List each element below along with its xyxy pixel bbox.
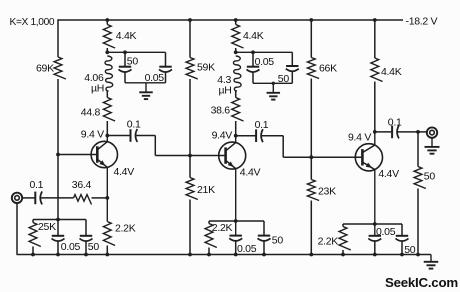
- wire: output cap to output terminal: [398, 131, 428, 133]
- svg-text:44.8: 44.8: [81, 106, 101, 118]
- wire: 0.05 to ground rail stage 3: [374, 241, 376, 254]
- junction: stage-3 2.2K on ground rail: [341, 253, 345, 257]
- wire: 38.6 to Q2 collector node: [235, 121, 237, 136]
- wire: bar end to 50 cap stage 2: [291, 52, 293, 65]
- wire: bar to 50 cap stage-2 emitter: [263, 221, 265, 235]
- svg-text:50: 50: [127, 55, 139, 67]
- svg-text:2.2K: 2.2K: [115, 223, 136, 235]
- svg-text:-18.2 V: -18.2 V: [406, 16, 438, 28]
- wire: bar to 2.2K stage 2: [208, 221, 210, 224]
- wire: Q2 emitter lead down: [235, 169, 237, 236]
- wire: bar end to 0.05 cap: [165, 52, 167, 66]
- wire: top supply rail: [58, 19, 403, 21]
- wire: 25K to ground rail: [32, 247, 34, 255]
- wire: stage-1 decoupling bottom bar: [125, 82, 166, 84]
- svg-text:4.4V: 4.4V: [240, 166, 261, 178]
- junction: output load on ground rail: [416, 253, 420, 257]
- resistor 50 (output load): [414, 167, 426, 189]
- resistor 4.4K (stage-2 collector supply): [232, 25, 244, 49]
- wire: rail to 4.4K stage 3: [374, 20, 376, 58]
- capacitor 0.1 (stage-1/2 coupling): [130, 129, 132, 142]
- transistor Q3 (stage 3, common-emitter) (NPN, circle envelope): [355, 144, 382, 171]
- resistor 4.4K (stage-1 collector supply): [103, 25, 115, 49]
- wire: 50 cap to ground rail: [85, 241, 87, 254]
- junction: 50 cap on ground rail: [84, 253, 88, 257]
- svg-text:69K: 69K: [36, 63, 54, 75]
- wire: 2.2K to ground rail stage 3: [342, 250, 344, 255]
- wire: rail to 59K: [189, 20, 191, 58]
- resistor 2.2K (stage-1 emitter): [103, 222, 115, 246]
- svg-text:23K: 23K: [318, 185, 336, 197]
- resistor 44.8 (stage-1 collector): [103, 98, 115, 122]
- node: Q3 base bias junction: [309, 155, 313, 159]
- resistor 23K (bias divider lower, stage 3): [307, 180, 319, 201]
- svg-text:9.4 V: 9.4 V: [348, 131, 371, 143]
- capacitor 0.05 (stage-3 emitter bypass): [369, 235, 381, 237]
- ground (stage-2 decoupling): [267, 83, 281, 99]
- svg-text:50: 50: [404, 244, 416, 256]
- inductor 4.06 µH (stage-1 peaking coil): [105, 56, 113, 91]
- junction: 23K on ground rail: [309, 253, 313, 257]
- wire: rail to 4.4K stage 2: [235, 20, 237, 25]
- resistor 21K (bias divider lower, stage 2): [186, 178, 198, 200]
- wire: 50 cap to ground rail stage-2 emitter: [263, 241, 265, 255]
- wire: stage-2 emitter bar: [209, 220, 264, 222]
- wire: Q3 collector lead: [374, 132, 376, 145]
- wire: 69K to base node / bypass bar: [57, 79, 59, 220]
- node: Q2 base bias junction: [188, 154, 192, 158]
- resistor 38.6 (stage-2 collector): [232, 98, 244, 122]
- junction: stage-2 collector chain on supply rail: [234, 18, 238, 22]
- junction: stage-1 collector chain on supply rail: [105, 18, 109, 22]
- svg-text:4.4K: 4.4K: [381, 66, 402, 78]
- wire: Q3 collector to output coupling cap: [375, 131, 392, 133]
- node: Q1 emitter input junction: [105, 196, 109, 200]
- wire: 0.05 cap to bottom bar: [165, 72, 167, 83]
- node: stage-1 base bypass junction: [56, 218, 60, 222]
- junction: 59K on supply rail: [188, 18, 192, 22]
- capacitor 0.1 (input coupling): [34, 192, 36, 205]
- resistor 2.2K (stage-2 emitter): [205, 224, 217, 248]
- junction: stage-2 2.2K on ground rail: [207, 253, 211, 257]
- transistor Q1 (stage 1, common-base) (NPN, circle envelope): [91, 141, 117, 167]
- capacitor 0.1 (output coupling): [391, 126, 393, 139]
- svg-text:0.1: 0.1: [255, 119, 269, 131]
- node: Q2 collector (9.4 V): [234, 134, 238, 138]
- wire: Q3 emitter lead down: [374, 169, 376, 235]
- wire: 36.4 to Q1 emitter line: [92, 197, 108, 199]
- wire: Q1 collector to coupling cap: [107, 135, 130, 137]
- junction: 0.05 cap on ground rail: [56, 253, 60, 257]
- wire: 4.4K to decoupling node stage 2: [235, 48, 237, 52]
- junction: stage-2 50 cap on ground rail: [262, 253, 266, 257]
- junction: stage-3 0.05 on ground rail: [373, 253, 377, 257]
- resistor 66K (bias divider upper, stage 3): [307, 58, 319, 79]
- node: Q1 collector (9.4 V): [105, 134, 109, 138]
- svg-text:0.05: 0.05: [237, 243, 257, 255]
- svg-text:36.4: 36.4: [72, 179, 92, 191]
- svg-text:9.4 V: 9.4 V: [81, 128, 104, 140]
- wire: rail to 4.4K: [106, 20, 108, 25]
- capacitor 50 (stage-1 decoupling): [119, 66, 131, 68]
- wire: Q1 base to bias divider: [58, 154, 97, 156]
- node: Q3 emitter bypass junction: [373, 222, 377, 226]
- capacitor 50 (stage-2 decoupling): [286, 65, 298, 67]
- wire: coil to 38.6 resistor: [235, 91, 237, 98]
- capacitor 0.05 (stage-1 base bypass): [52, 235, 64, 237]
- svg-text:0.1: 0.1: [388, 116, 402, 128]
- svg-text:4.4K: 4.4K: [116, 30, 137, 42]
- wire: bar to 50 cap: [85, 220, 87, 236]
- capacitor 0.05 (stage-1 decoupling): [159, 66, 171, 68]
- wire: bar to 50 cap stage-3 emitter: [401, 224, 403, 235]
- wire: bottom ground rail: [17, 254, 432, 256]
- wire: coil to 44.8 resistor: [106, 91, 108, 98]
- resistor 59K (bias divider upper, stage 2): [186, 58, 198, 80]
- resistor 36.4 (input series to Q1 emitter): [74, 195, 92, 205]
- junction: 21K on ground rail: [188, 253, 192, 257]
- wire: 4.4K to Q3 collector node: [374, 82, 376, 132]
- wire: 50 cap to bottom bar: [124, 72, 126, 83]
- svg-text:66K: 66K: [319, 63, 337, 75]
- wire: 44.8 to Q1 collector node: [106, 121, 108, 136]
- svg-text:38.6: 38.6: [211, 104, 231, 116]
- wire: stage-1 decoupling top bar: [107, 51, 165, 53]
- wire: rail to 66K: [310, 20, 312, 58]
- svg-text:9.4V: 9.4V: [212, 129, 233, 141]
- wire: bar to 2.2K stage 3: [342, 224, 344, 227]
- wire: 0.05 to ground rail stage 2: [235, 241, 237, 255]
- wire: 2.2K to ground rail: [106, 246, 108, 255]
- wire: 66K to Q3 base node: [310, 79, 312, 158]
- wire: input terminal shield to ground rail: [16, 203, 18, 255]
- capacitor 0.05 (stage-2 decoupling): [247, 66, 259, 68]
- svg-text:SeekIC.com: SeekIC.com: [385, 275, 458, 290]
- wire: 4.4K to decoupling node: [106, 48, 108, 52]
- wire: stage-3 emitter bar: [343, 223, 402, 225]
- svg-text:0.05: 0.05: [61, 241, 81, 253]
- capacitor 0.05 (stage-2 emitter bypass): [230, 235, 242, 237]
- wire: Q1 collector lead: [106, 136, 108, 142]
- wire: coupling cap to corner: [136, 135, 155, 137]
- resistor 2.2K (stage-3 emitter): [339, 227, 351, 251]
- wire: corner drop to Q3 base level: [282, 136, 284, 158]
- junction: 0.05 cap on stage-2 decoupling bar: [251, 50, 255, 54]
- wire: 59K to Q2 base node: [189, 79, 191, 156]
- svg-text:21K: 21K: [197, 184, 215, 196]
- resistor 4.4K (stage-3 collector): [371, 58, 383, 82]
- wire: to Q3 base: [283, 156, 362, 158]
- svg-text:0.05: 0.05: [255, 56, 275, 68]
- svg-text:50: 50: [88, 241, 100, 253]
- capacitor 0.1 (stage-2/3 coupling): [255, 129, 257, 142]
- input terminal (coax jack): [12, 193, 22, 203]
- output terminal (coax jack): [427, 127, 437, 137]
- node: stage-2 decoupling junction: [234, 50, 238, 54]
- wire: bar to 25K: [32, 220, 34, 223]
- junction: ground stem on stage-2 bottom bar: [272, 82, 275, 85]
- wire: 21K to ground rail: [189, 200, 191, 255]
- wire: 2.2K to ground rail stage 2: [208, 248, 210, 255]
- wire: 0.05 cap to bottom bar stage 2: [252, 72, 254, 83]
- svg-text:25K: 25K: [38, 221, 56, 233]
- capacitor 50 (stage-3 emitter bypass): [396, 235, 408, 237]
- node: Q2 emitter bypass junction: [234, 219, 238, 223]
- svg-text:4.4V: 4.4V: [114, 166, 135, 178]
- svg-text:0.1: 0.1: [30, 179, 44, 191]
- junction: stage-3 collector chain on supply rail: [373, 18, 377, 22]
- svg-text:4.4K: 4.4K: [243, 30, 264, 42]
- transistor Q2 (stage 2, common-emitter) (NPN, circle envelope): [219, 142, 246, 169]
- capacitor 50 (stage-1 base bypass): [80, 235, 92, 237]
- wire: Q1 emitter lead down: [106, 167, 108, 221]
- wire: base node to 23K: [310, 157, 312, 179]
- capacitor 50 (stage-2 emitter bypass): [258, 235, 270, 237]
- svg-text:59K: 59K: [197, 61, 215, 73]
- wire: stage-1 base bypass bar: [33, 219, 86, 221]
- svg-text:50: 50: [424, 171, 436, 183]
- wire: stage-2 decoupling top bar: [236, 51, 293, 53]
- wire: input terminal to coupling cap: [22, 197, 35, 199]
- junction: 50 cap on decoupling bar: [123, 50, 127, 54]
- wire: to Q2 base: [155, 155, 225, 157]
- wire: 0.05 cap to ground rail: [57, 241, 59, 254]
- node: Q3 collector (9.4 V): [373, 130, 377, 134]
- wire: 50 cap to bottom bar stage 2: [291, 71, 293, 83]
- inductor 4.3 µH (stage-2 peaking coil): [233, 56, 241, 91]
- junction: stage-2 0.05 on ground rail: [234, 253, 238, 257]
- wire: bar to 50 cap: [124, 52, 126, 66]
- wire: 23K to ground rail: [310, 201, 312, 255]
- wire: left rail drop to 69K: [57, 19, 59, 57]
- wire: stage-2 decoupling bottom bar: [253, 82, 292, 84]
- ground (output terminal shield): [425, 138, 440, 154]
- ground (main, ground-rail end): [424, 255, 439, 269]
- wire: bar to 0.05 cap stage 2: [252, 52, 254, 66]
- svg-text:2.2K: 2.2K: [212, 222, 233, 234]
- svg-text:0.05: 0.05: [376, 226, 396, 238]
- svg-text:2.2K: 2.2K: [318, 235, 339, 247]
- svg-text:0.1: 0.1: [127, 118, 141, 130]
- wire: Q2 collector lead: [235, 136, 237, 143]
- resistor 25K (bias divider lower, stage 1): [29, 223, 41, 247]
- ground (stage-1 decoupling): [139, 83, 153, 99]
- wire: base node to 21K: [189, 156, 191, 178]
- junction: stage-1 emitter resistor on ground rail: [105, 253, 109, 257]
- node: stage-1 decoupling junction: [105, 50, 109, 54]
- junction: stage-3 50 cap on ground rail: [400, 253, 404, 257]
- svg-text:50: 50: [272, 234, 284, 246]
- junction: 25K on ground rail: [31, 253, 35, 257]
- junction: 66K on supply rail: [309, 18, 313, 22]
- wire: output tap to 50 load: [417, 132, 419, 167]
- node: Q1 base bias junction: [56, 153, 60, 157]
- wire: 50 load to ground rail: [417, 189, 419, 255]
- wire: 50 cap to ground rail stage-3 emitter: [401, 241, 403, 254]
- svg-text:µH: µH: [218, 84, 231, 96]
- wire: junction to 0.05 cap: [57, 220, 59, 236]
- svg-text:0.05: 0.05: [145, 72, 165, 84]
- wire: input cap to 36.4 resistor: [41, 197, 74, 199]
- svg-text:K=X 1,000: K=X 1,000: [10, 17, 55, 28]
- svg-text:4.4V: 4.4V: [378, 168, 399, 180]
- wire: corner drop to Q2 base level: [154, 136, 156, 156]
- resistor 69K (bias divider upper, stage 1): [54, 57, 66, 79]
- svg-text:µH: µH: [91, 82, 104, 94]
- wire: Q2 collector to coupling cap: [236, 135, 256, 137]
- node: output load tap: [416, 130, 420, 134]
- wire: coupling cap to corner 2: [262, 135, 284, 137]
